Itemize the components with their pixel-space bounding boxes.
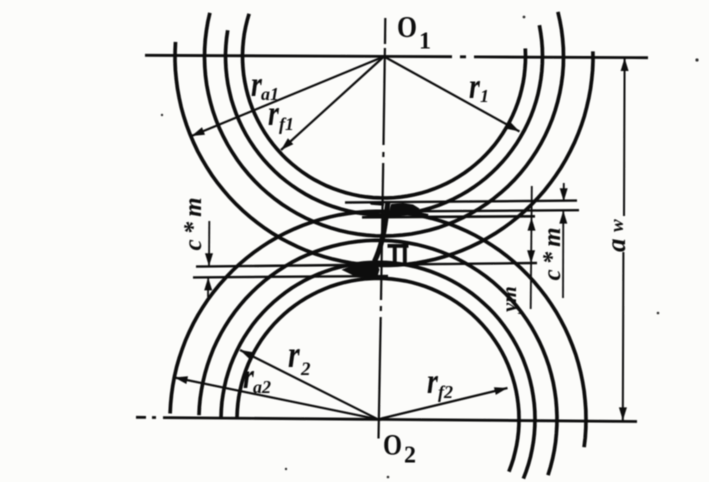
leader line radius r2 with arrow [240,350,378,419]
line tangent to gear1 root circle (top of clearance) [345,201,577,203]
gear2 root circle rf2 arc [237,278,519,471]
line tangent to gear2 root circle (bottom of clearance) [193,276,388,277]
svg-text:c * m: c * m [539,227,566,280]
leader line radius r1 with arrow [384,57,520,132]
leader line radius rf2 with arrow [378,388,508,419]
svg-text:1: 1 [480,86,489,106]
label aw (rotated) [601,219,631,252]
line tangent to gear1 pitch circle [362,216,535,217]
gear1 working pitch circle arc [205,12,564,236]
svg-text:2: 2 [300,359,311,380]
svg-text:f1: f1 [279,114,294,134]
svg-text:2: 2 [404,443,416,469]
svg-text:r: r [268,93,279,133]
gear2 pitch circle r2 arc [221,262,535,478]
dimension line ym with outward arrows [531,186,532,309]
line tangent to gear2 addendum circle [352,210,579,212]
tooth contact blob at pitch point (filled) [342,264,380,278]
svg-text:1: 1 [419,29,431,55]
svg-text:a2: a2 [253,377,271,397]
line tangent to gear1 addendum / gear2 pitch circle [196,263,537,267]
dimension line c*m left, lower extension with up arrow [207,278,209,297]
svg-text:O: O [383,429,402,462]
tooth contact tick upper right [412,213,428,217]
svg-text:w: w [607,219,628,232]
dimension line c*m right, upper extension with down arrow [563,183,565,201]
gear2 working pitch circle arc [199,240,557,475]
tooth flank thick stroke through pitch point [375,203,388,262]
wire: horizontal centerline through O2 (dash-dot) [136,417,637,421]
tooth contact blob upper (filled) [390,203,420,216]
leader line radius ra1 with arrow [192,57,385,137]
svg-text:f2: f2 [438,382,453,402]
svg-text:c * m: c * m [180,197,207,250]
svg-text:r: r [427,361,438,401]
dimension line c*m right, lower extension with up arrow [562,211,564,298]
leader line radius rf1 with arrow [281,57,384,151]
svg-text:r: r [288,334,300,376]
gear2 addendum circle ra2 arc [170,211,586,447]
svg-text:a: a [601,239,631,253]
gear1 pitch circle r1 arc [226,25,543,215]
wire: horizontal centerline through O1 (dash-dot) [145,55,648,57]
gear1 root circle rf1 arc [243,14,526,198]
svg-text:r: r [469,66,480,106]
tooth contact band upper left (filled) [368,202,384,206]
svg-text:ym: ym [497,286,521,315]
dimension line c*m left, upper extension with down arrow [208,221,210,266]
pitch point label П (drawn with rects) [388,244,410,266]
scan speck dots [161,16,699,479]
gear1 addendum circle ra1 arc [175,42,593,266]
wire: vertical centerline through O1 and O2 (dash-dot) [379,18,386,439]
svg-text:O: O [397,9,417,44]
dimension line aw with outward arrows [623,58,625,421]
leader line radius ra2 with arrow [175,378,379,420]
